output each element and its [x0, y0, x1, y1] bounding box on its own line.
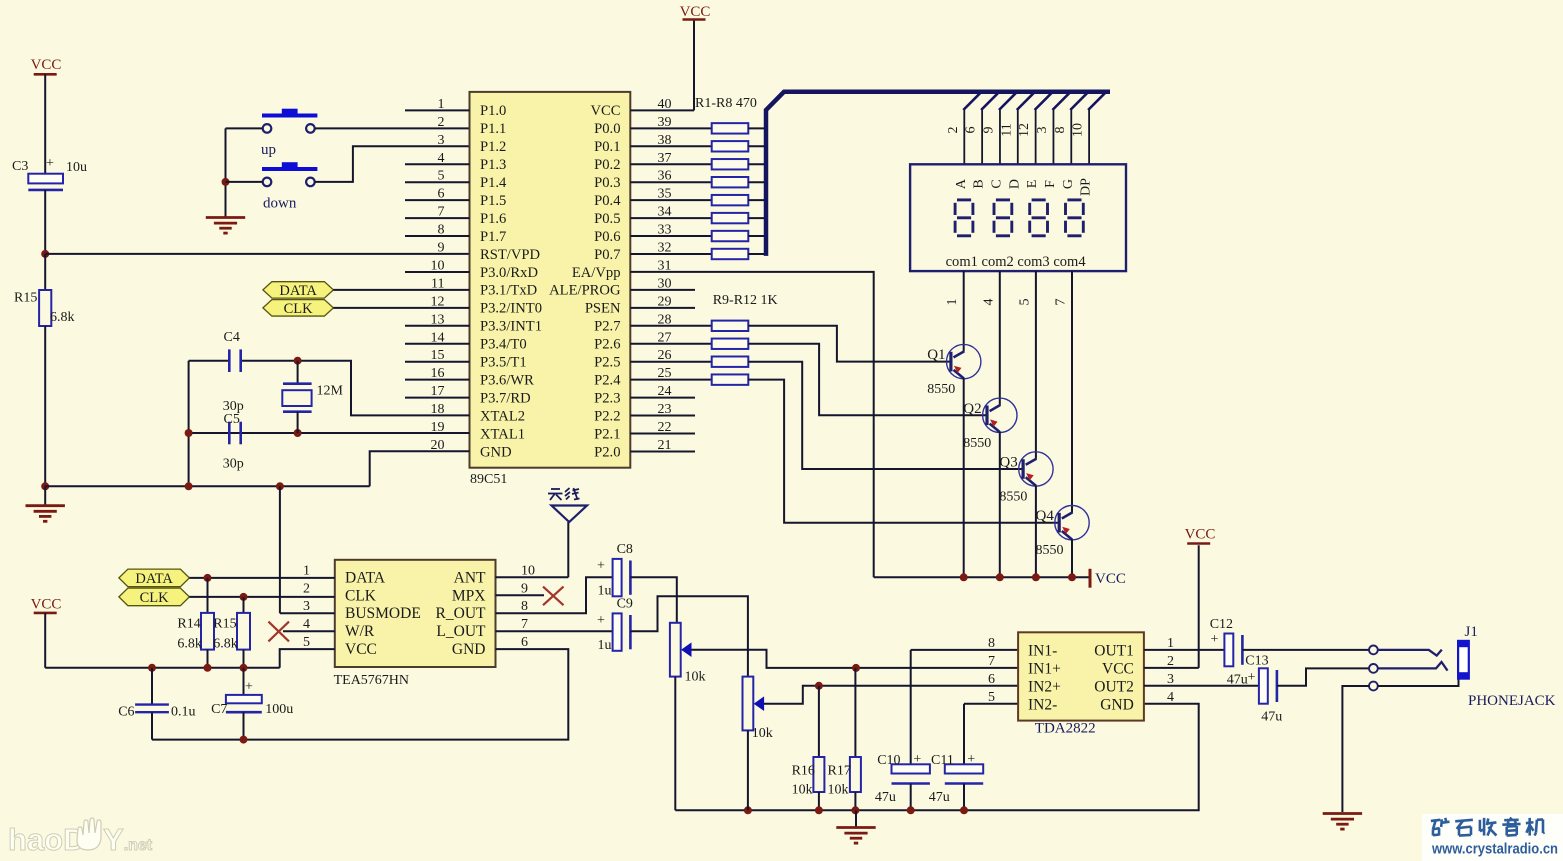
- svg-text:6: 6: [988, 672, 995, 687]
- svg-text:3: 3: [1035, 127, 1050, 134]
- svg-text:VCC: VCC: [1095, 571, 1126, 587]
- svg-text:8550: 8550: [927, 382, 955, 397]
- svg-text:C9: C9: [617, 597, 633, 612]
- svg-text:R14: R14: [177, 616, 200, 631]
- svg-text:D: D: [1007, 179, 1022, 189]
- svg-text:1: 1: [1167, 636, 1174, 651]
- svg-text:12M: 12M: [317, 384, 344, 399]
- svg-text:+: +: [913, 752, 921, 767]
- svg-text:7: 7: [1054, 299, 1069, 306]
- svg-text:5: 5: [988, 690, 995, 705]
- svg-text:IN2-: IN2-: [1028, 696, 1057, 713]
- svg-text:Q1: Q1: [927, 347, 945, 363]
- svg-text:+: +: [1211, 632, 1219, 647]
- svg-text:ALE/PROG: ALE/PROG: [549, 283, 621, 299]
- svg-text:6.8k: 6.8k: [177, 637, 202, 652]
- svg-text:+: +: [1248, 670, 1256, 685]
- svg-text:10k: 10k: [685, 670, 706, 685]
- svg-text:1: 1: [303, 563, 310, 578]
- svg-text:5: 5: [303, 635, 310, 650]
- svg-text:1u: 1u: [598, 584, 612, 599]
- svg-text:haoD: haoD: [8, 822, 86, 857]
- svg-text:4: 4: [1167, 690, 1174, 705]
- svg-text:47u: 47u: [1227, 673, 1248, 688]
- svg-text:9: 9: [521, 581, 528, 596]
- svg-text:CLK: CLK: [140, 590, 170, 606]
- svg-text:P2.6: P2.6: [594, 337, 620, 353]
- svg-text:VCC: VCC: [590, 103, 620, 119]
- svg-text:EA/Vpp: EA/Vpp: [572, 265, 621, 281]
- svg-text:1: 1: [945, 299, 960, 306]
- svg-text:6.8k: 6.8k: [213, 637, 238, 652]
- svg-text:C11: C11: [931, 753, 954, 768]
- svg-text:P1.3: P1.3: [480, 157, 506, 173]
- svg-text:4: 4: [303, 617, 310, 632]
- svg-text:P1.5: P1.5: [480, 193, 506, 209]
- svg-text:GND: GND: [480, 444, 512, 460]
- svg-text:P3.6/WR: P3.6/WR: [480, 372, 534, 388]
- svg-text:P3.3/INT1: P3.3/INT1: [480, 319, 542, 335]
- svg-text:P1.7: P1.7: [480, 229, 506, 245]
- svg-text:8: 8: [521, 599, 528, 614]
- svg-text:5: 5: [1017, 299, 1032, 306]
- svg-text:P3.1/TxD: P3.1/TxD: [480, 283, 537, 299]
- svg-text:P2.5: P2.5: [594, 355, 620, 371]
- svg-text:VCC: VCC: [1102, 660, 1134, 677]
- svg-text:P1.4: P1.4: [480, 175, 507, 191]
- svg-text:VCC: VCC: [1185, 527, 1216, 543]
- svg-text:R15: R15: [213, 616, 236, 631]
- svg-text:30p: 30p: [223, 457, 244, 472]
- svg-text:P1.2: P1.2: [480, 139, 506, 155]
- svg-text:+: +: [967, 752, 975, 767]
- svg-text:P0.2: P0.2: [594, 157, 620, 173]
- svg-text:E: E: [1025, 180, 1040, 189]
- svg-text:1u: 1u: [598, 638, 612, 653]
- svg-text:P0.6: P0.6: [594, 229, 620, 245]
- svg-text:BUSMODE: BUSMODE: [345, 605, 421, 622]
- svg-text:6: 6: [521, 635, 528, 650]
- svg-text:8550: 8550: [999, 490, 1027, 505]
- svg-text:DP: DP: [1079, 178, 1094, 196]
- svg-text:P2.4: P2.4: [594, 372, 621, 388]
- svg-text:F: F: [1043, 180, 1058, 188]
- svg-text:C6: C6: [118, 705, 134, 720]
- svg-text:+: +: [245, 680, 253, 695]
- svg-text:3: 3: [1167, 672, 1174, 687]
- svg-text:0.1u: 0.1u: [171, 705, 196, 720]
- svg-text:3: 3: [303, 599, 310, 614]
- svg-text:P2.0: P2.0: [594, 444, 620, 460]
- svg-text:XTAL2: XTAL2: [480, 408, 525, 424]
- svg-text:R_OUT: R_OUT: [436, 605, 486, 622]
- svg-text:6.8k: 6.8k: [50, 310, 75, 325]
- svg-text:+: +: [46, 156, 54, 171]
- svg-text:C12: C12: [1210, 617, 1233, 632]
- svg-text:47u: 47u: [929, 790, 950, 805]
- svg-text:W/R: W/R: [345, 623, 375, 640]
- svg-text:P3.5/T1: P3.5/T1: [480, 355, 527, 371]
- svg-text:11: 11: [999, 123, 1014, 136]
- svg-text:OUT1: OUT1: [1094, 642, 1134, 659]
- svg-text:IN1+: IN1+: [1028, 660, 1061, 677]
- svg-text:9: 9: [981, 127, 996, 134]
- svg-text:8: 8: [988, 636, 995, 651]
- svg-text:com1 com2 com3 com4: com1 com2 com3 com4: [946, 254, 1087, 270]
- svg-text:4: 4: [981, 299, 996, 306]
- svg-text:100u: 100u: [265, 702, 293, 717]
- svg-text:ANT: ANT: [454, 569, 486, 586]
- svg-text:12: 12: [1017, 123, 1032, 137]
- svg-text:P2.2: P2.2: [594, 408, 620, 424]
- svg-text:C3: C3: [12, 159, 28, 174]
- svg-text:IN2+: IN2+: [1028, 678, 1061, 695]
- svg-text:J1: J1: [1465, 624, 1478, 640]
- svg-text:C4: C4: [224, 330, 240, 345]
- svg-text:G: G: [1061, 179, 1076, 189]
- svg-text:9: 9: [438, 241, 445, 256]
- svg-text:PSEN: PSEN: [585, 301, 621, 317]
- svg-text:IN1-: IN1-: [1028, 642, 1057, 659]
- svg-text:CLK: CLK: [345, 587, 377, 604]
- svg-text:XTAL1: XTAL1: [480, 426, 525, 442]
- svg-text:DATA: DATA: [345, 569, 386, 586]
- svg-text:P0.4: P0.4: [594, 193, 621, 209]
- svg-text:P2.3: P2.3: [594, 390, 620, 406]
- svg-text:8550: 8550: [963, 436, 991, 451]
- svg-text:VCC: VCC: [31, 597, 62, 613]
- svg-text:R15: R15: [14, 291, 37, 306]
- svg-text:2: 2: [438, 115, 445, 130]
- svg-text:10k: 10k: [792, 783, 813, 798]
- svg-text:www.crystalradio.cn: www.crystalradio.cn: [1431, 841, 1558, 858]
- svg-text:Q4: Q4: [1036, 508, 1055, 524]
- svg-text:8550: 8550: [1036, 543, 1064, 558]
- svg-text:2: 2: [1167, 654, 1174, 669]
- svg-text:CLK: CLK: [284, 301, 314, 317]
- svg-text:P1.6: P1.6: [480, 211, 506, 227]
- svg-text:7: 7: [521, 617, 528, 632]
- svg-text:47u: 47u: [875, 790, 896, 805]
- svg-text:C13: C13: [1245, 654, 1268, 669]
- svg-text:P1.1: P1.1: [480, 121, 506, 137]
- svg-text:6: 6: [964, 127, 979, 134]
- svg-text:P3.0/RxD: P3.0/RxD: [480, 265, 538, 281]
- svg-text:OUT2: OUT2: [1094, 678, 1134, 695]
- svg-text:2: 2: [303, 581, 310, 596]
- svg-text:MPX: MPX: [452, 587, 486, 604]
- svg-text:C8: C8: [617, 542, 633, 557]
- svg-text:PHONEJACK: PHONEJACK: [1468, 693, 1556, 709]
- svg-text:VCC: VCC: [345, 641, 377, 658]
- svg-text:L_OUT: L_OUT: [436, 623, 486, 640]
- svg-text:P0.5: P0.5: [594, 211, 620, 227]
- svg-text:P3.2/INT0: P3.2/INT0: [480, 301, 542, 317]
- svg-text:GND: GND: [1100, 696, 1134, 713]
- svg-text:47u: 47u: [1261, 710, 1282, 725]
- svg-text:P0.1: P0.1: [594, 139, 620, 155]
- svg-text:up: up: [261, 142, 276, 158]
- svg-text:P2.1: P2.1: [594, 426, 620, 442]
- svg-text:C5: C5: [224, 412, 240, 427]
- svg-text:+: +: [597, 613, 605, 628]
- svg-text:P2.7: P2.7: [594, 319, 620, 335]
- svg-text:VCC: VCC: [31, 57, 62, 73]
- svg-text:R9-R12 1K: R9-R12 1K: [713, 293, 778, 308]
- svg-text:Q2: Q2: [963, 401, 981, 417]
- svg-text:down: down: [263, 195, 297, 211]
- svg-text:P0.3: P0.3: [594, 175, 620, 191]
- svg-text:R16: R16: [792, 764, 815, 779]
- svg-text:B: B: [972, 179, 987, 188]
- svg-text:DATA: DATA: [135, 571, 173, 587]
- svg-text:P3.4/T0: P3.4/T0: [480, 337, 527, 353]
- svg-text:P0.0: P0.0: [594, 121, 620, 137]
- svg-text:Q3: Q3: [999, 455, 1017, 471]
- svg-text:2: 2: [946, 127, 961, 134]
- svg-text:TDA2822: TDA2822: [1035, 721, 1096, 737]
- svg-text:89C51: 89C51: [470, 472, 507, 487]
- svg-text:P3.7/RD: P3.7/RD: [480, 390, 531, 406]
- svg-text:R17: R17: [828, 764, 851, 779]
- svg-text:R1-R8 470: R1-R8 470: [695, 96, 757, 111]
- svg-text:C10: C10: [877, 753, 900, 768]
- svg-text:10k: 10k: [828, 783, 849, 798]
- svg-text:3: 3: [438, 133, 445, 148]
- svg-text:RST/VPD: RST/VPD: [480, 247, 540, 263]
- svg-text:8: 8: [1053, 127, 1068, 134]
- svg-text:C7: C7: [211, 702, 227, 717]
- svg-text:DATA: DATA: [279, 283, 317, 299]
- svg-text:7: 7: [988, 654, 995, 669]
- svg-text:P0.7: P0.7: [594, 247, 620, 263]
- svg-text:10: 10: [1071, 123, 1086, 137]
- svg-text:GND: GND: [452, 641, 486, 658]
- svg-text:P1.0: P1.0: [480, 103, 506, 119]
- svg-text:VCC: VCC: [680, 4, 711, 20]
- svg-text:10u: 10u: [66, 160, 87, 175]
- svg-text:A: A: [954, 178, 969, 189]
- svg-text:+: +: [597, 559, 605, 574]
- svg-text:10: 10: [521, 563, 535, 578]
- svg-text:C: C: [989, 179, 1004, 188]
- svg-text:10k: 10k: [752, 726, 773, 741]
- svg-text:TEA5767HN: TEA5767HN: [334, 673, 409, 688]
